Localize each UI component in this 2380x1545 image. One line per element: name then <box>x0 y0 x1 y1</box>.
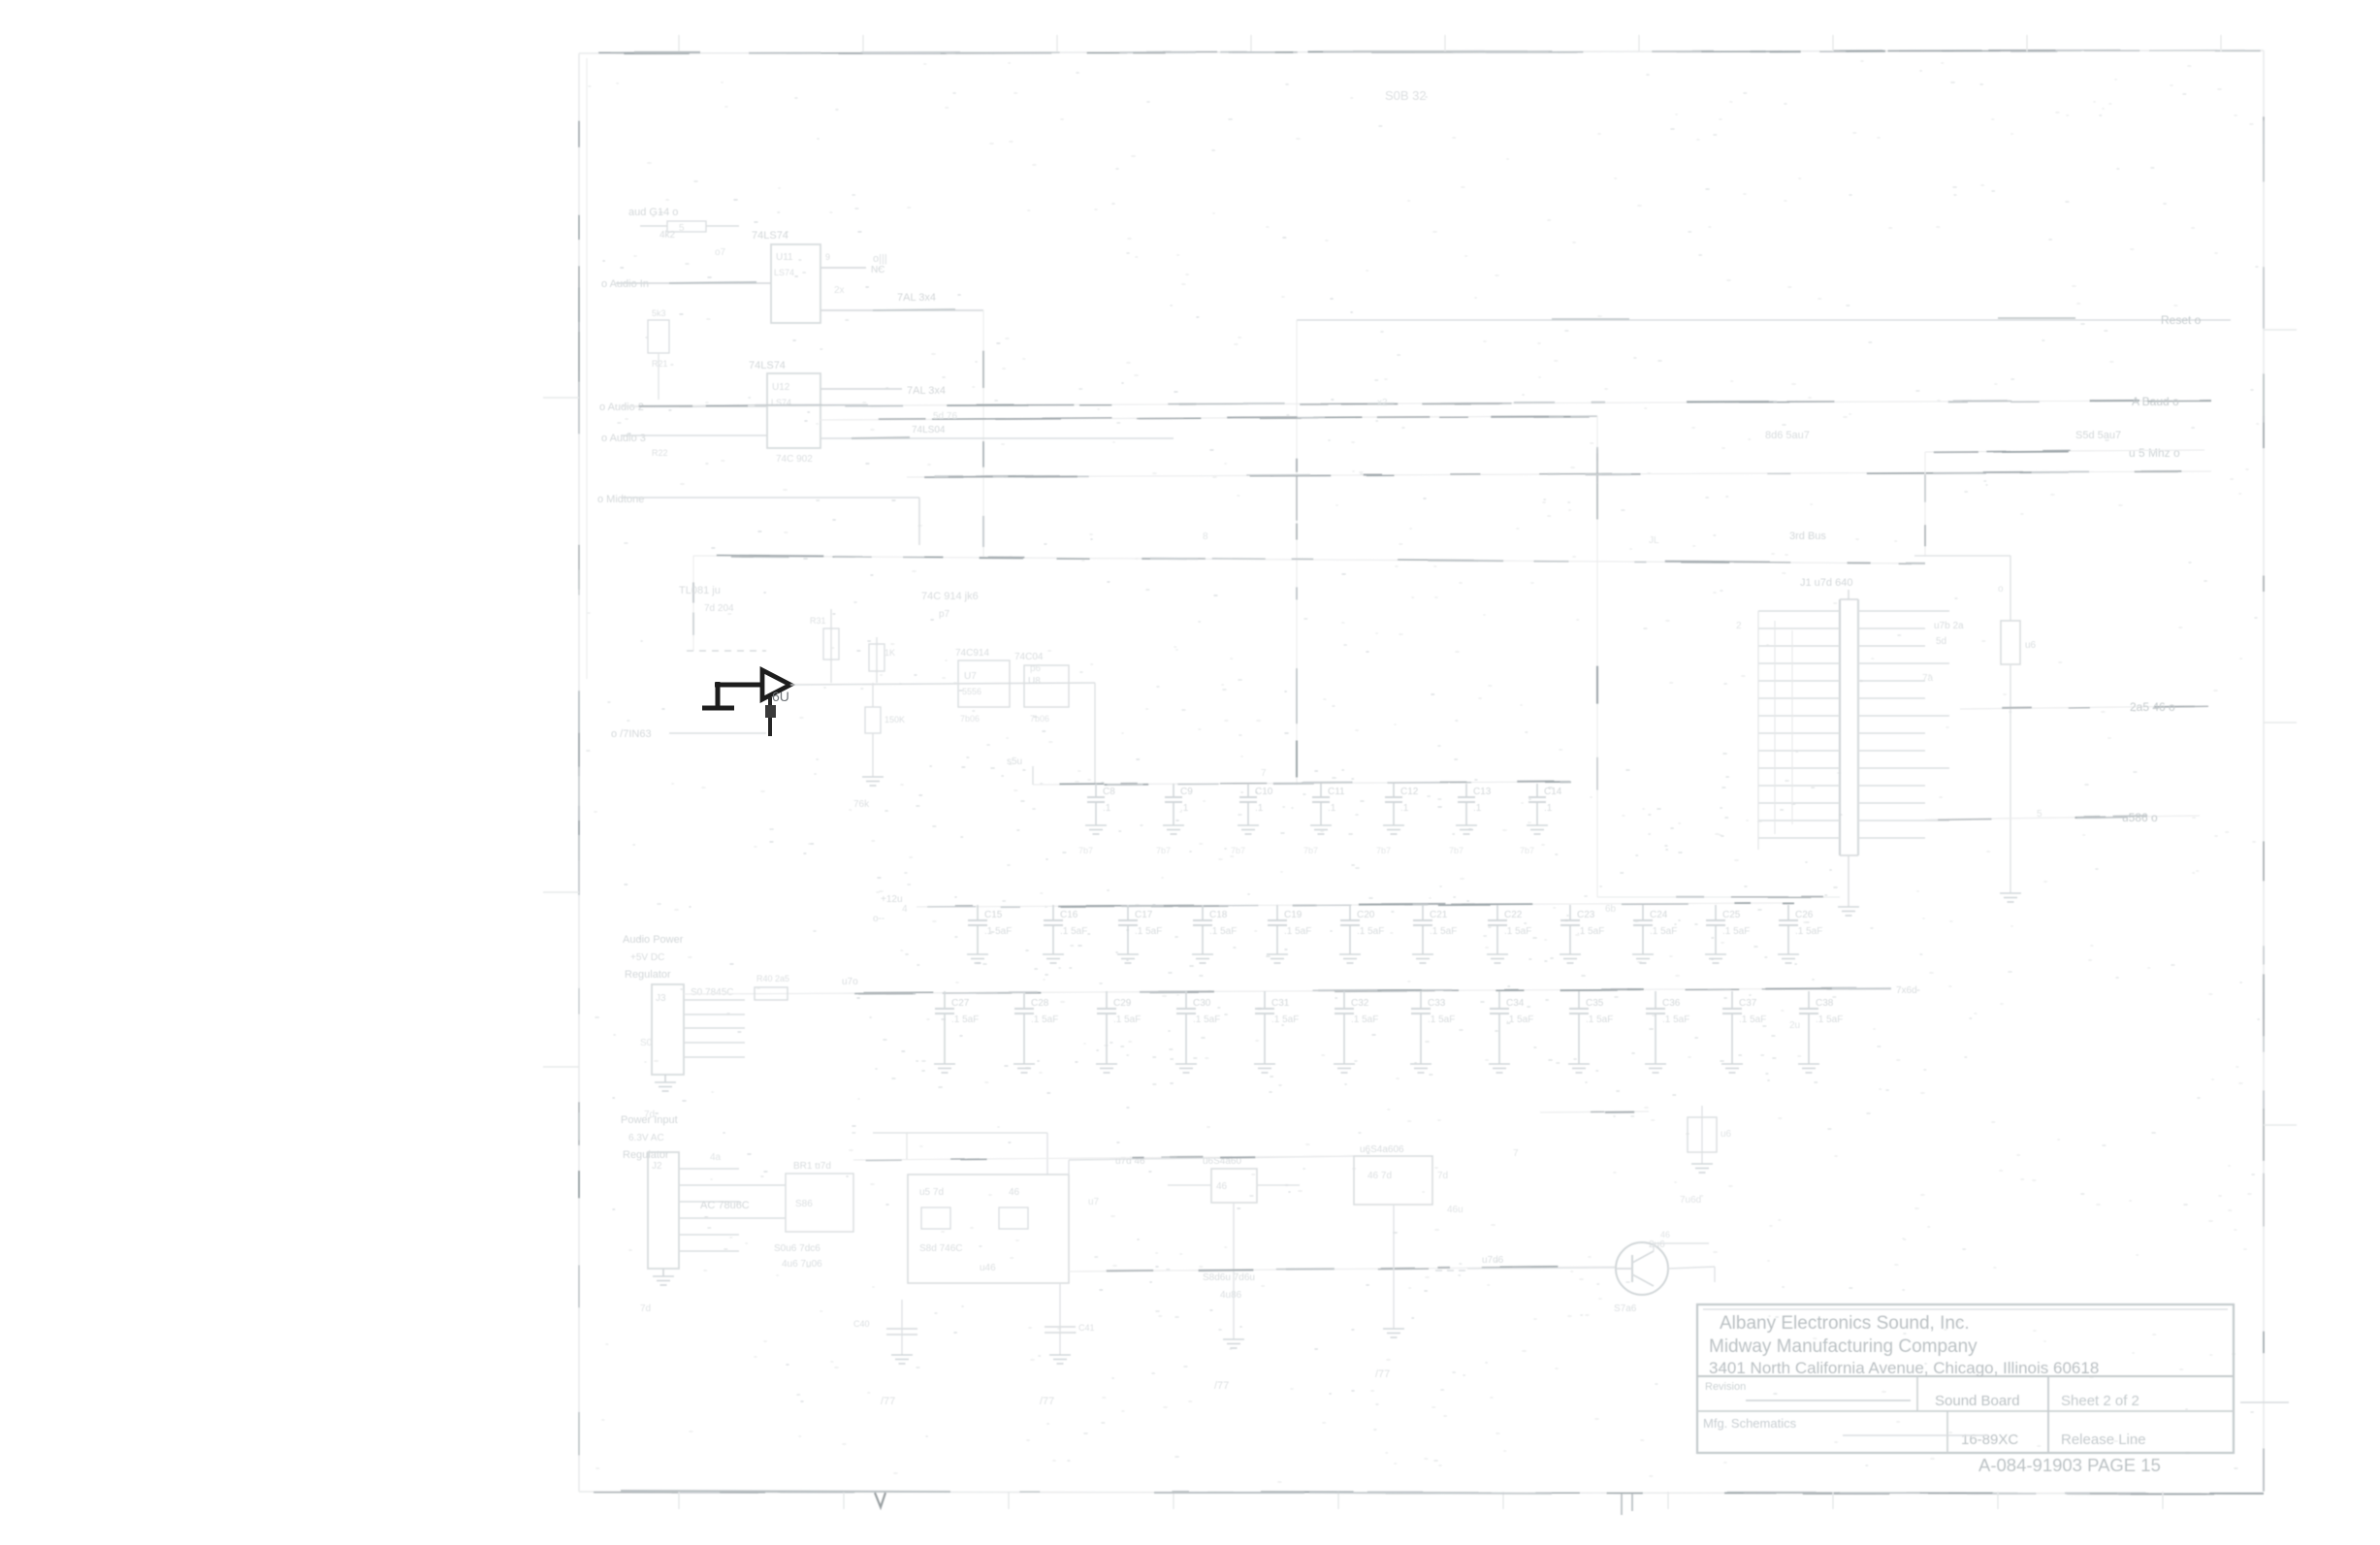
ground under R33 <box>862 777 884 786</box>
ground under C41 <box>1049 1355 1071 1364</box>
ground under J2 <box>653 1269 674 1285</box>
label: right edge upper nets <box>1765 430 2121 441</box>
svg-text:7b7: 7b7 <box>1449 846 1463 855</box>
IC U7 small box <box>955 648 1010 724</box>
wire: net B run with corner to connector <box>820 416 1840 897</box>
capacitor C36 <box>1646 991 1689 1064</box>
wire: U21 ground leg <box>1233 1203 1235 1339</box>
wire: net RESET long run to right edge <box>1297 313 2231 327</box>
svg-text:C10: C10 <box>1255 787 1273 797</box>
svg-text:5: 5 <box>2037 809 2042 820</box>
svg-text:Sound Board: Sound Board <box>1935 1393 2020 1409</box>
ground for C11 <box>1310 825 1332 834</box>
svg-text:4a: 4a <box>710 1152 722 1163</box>
pin 1 of J1 (left) <box>1758 610 1840 612</box>
svg-text:C11: C11 <box>1328 787 1345 797</box>
svg-text:C38: C38 <box>1816 998 1834 1009</box>
svg-text:3401 North California Avenue,: 3401 North California Avenue, Chicago, I… <box>1709 1359 2099 1377</box>
pin 12 of J1 (left) <box>1758 802 1840 804</box>
svg-text:.1 5aF: .1 5aF <box>1284 926 1311 937</box>
ground for C15 <box>967 954 988 963</box>
wire: net C long run <box>907 446 2211 477</box>
svg-text:1K: 1K <box>884 648 895 658</box>
pin 4 of J1 (right) <box>1858 662 1949 664</box>
wire: BR1 top feed <box>873 1133 1047 1175</box>
wire: U12 output long run <box>820 425 1174 438</box>
svg-text:o Audio 2: o Audio 2 <box>599 402 644 413</box>
svg-text:o--: o-- <box>873 914 884 924</box>
svg-text:C8: C8 <box>1103 787 1115 797</box>
title block frame <box>1697 1304 2234 1453</box>
ground for C19 <box>1267 954 1288 963</box>
svg-text:.1 5aF: .1 5aF <box>951 1014 979 1025</box>
svg-text:4u86: 4u86 <box>1220 1290 1242 1301</box>
wire: regulator output bus B2 <box>684 977 1917 996</box>
svg-text:46: 46 <box>1216 1181 1228 1192</box>
svg-text:C33: C33 <box>1428 998 1446 1009</box>
IC U12 74LS74 flip-flop <box>767 373 820 448</box>
pin 5 of J1 (right) <box>1858 680 1925 682</box>
ground for C10 <box>1238 825 1259 834</box>
svg-text:C9: C9 <box>1180 787 1193 797</box>
ground under U21 <box>1223 1339 1244 1348</box>
wire: net A long run <box>621 395 2211 408</box>
svg-text:C30: C30 <box>1193 998 1211 1009</box>
svg-text:74LS04: 74LS04 <box>912 425 946 435</box>
svg-text:2a5 46 o: 2a5 46 o <box>2130 700 2175 714</box>
svg-text:.1 5aF: .1 5aF <box>1795 926 1822 937</box>
svg-text:46 7d: 46 7d <box>1367 1171 1392 1181</box>
svg-text:AC 78u6C: AC 78u6C <box>700 1200 750 1211</box>
svg-text:4: 4 <box>902 904 908 915</box>
label under BR1 <box>774 1243 822 1270</box>
svg-text:6b: 6b <box>1605 904 1617 915</box>
label cluster: Power Input Regulator <box>621 1114 678 1161</box>
svg-text:7d: 7d <box>1437 1171 1448 1181</box>
pin 13 of J1 (right) <box>1858 820 1949 821</box>
svg-text:u46: u46 <box>980 1263 996 1273</box>
svg-text:J2: J2 <box>652 1161 662 1172</box>
svg-text:.1: .1 <box>1328 803 1336 814</box>
wire: U11 Q output stub <box>820 252 884 275</box>
svg-text:9: 9 <box>825 252 830 262</box>
svg-text:C26: C26 <box>1795 910 1814 920</box>
capacitor C41 with ground <box>1045 1283 1095 1355</box>
wire: +12V bypass bus B1 <box>873 894 1794 924</box>
svg-text:2: 2 <box>1736 621 1742 631</box>
svg-text:6.3V AC: 6.3V AC <box>628 1133 664 1143</box>
svg-text:C28: C28 <box>1031 998 1049 1009</box>
wire: chain to cap bus A <box>1094 683 1096 785</box>
ground for C33 <box>1410 1064 1431 1073</box>
svg-text:Power Input: Power Input <box>621 1114 678 1126</box>
svg-text:46u: 46u <box>1447 1205 1463 1215</box>
svg-text:x2: x2 <box>1377 398 1388 408</box>
svg-text:.1 5aF: .1 5aF <box>1428 1014 1455 1025</box>
pin 13 of J1 (left) <box>1758 820 1840 821</box>
pin 3 of J1 (left) <box>1758 645 1840 647</box>
wire: J1 bottom stub to ground <box>1848 855 1849 907</box>
ground for C25 <box>1705 954 1726 963</box>
svg-text:Audio Power: Audio Power <box>623 934 684 946</box>
wire: net D to right edge label <box>1925 450 2204 556</box>
svg-text:R31: R31 <box>810 616 826 626</box>
label cluster: TL081 above op-amp <box>679 585 734 614</box>
capacitor C22 <box>1488 905 1531 954</box>
svg-text:7b7: 7b7 <box>1303 846 1318 855</box>
svg-text:7b7: 7b7 <box>1520 846 1534 855</box>
svg-text:.1 5aF: .1 5aF <box>1722 926 1750 937</box>
node label cluster: clock inputs <box>628 207 678 241</box>
svg-text:C24: C24 <box>1650 910 1668 920</box>
svg-text:S0 7845C: S0 7845C <box>691 987 733 998</box>
regulator block U20 <box>908 1175 1069 1283</box>
capacitor C16 <box>1044 905 1087 954</box>
svg-text:8: 8 <box>1203 531 1208 542</box>
svg-text:LS74: LS74 <box>774 268 794 277</box>
svg-text:o /7IN63: o /7IN63 <box>611 728 652 740</box>
svg-text:7AL 3x4: 7AL 3x4 <box>897 292 936 304</box>
connector J1 body rails <box>1840 599 1858 855</box>
svg-text:NC: NC <box>871 265 884 275</box>
svg-text:A-084-91903 PAGE 15: A-084-91903 PAGE 15 <box>1978 1455 2161 1475</box>
svg-text:BR1 u7d: BR1 u7d <box>793 1161 831 1172</box>
pin 6 of J1 (right) <box>1858 697 1925 699</box>
svg-text:C27: C27 <box>951 998 970 1009</box>
wire: net into R45 <box>1914 555 2010 557</box>
ground for C9 <box>1163 825 1184 834</box>
svg-text:C21: C21 <box>1430 910 1448 920</box>
pin 1 of J1 (right) <box>1858 610 1949 612</box>
svg-text:U8: U8 <box>1028 676 1041 687</box>
pin 11 of J1 (right) <box>1858 785 1925 787</box>
wire: vertical net from RESET run <box>1296 320 1298 785</box>
svg-text:.1 5aF: .1 5aF <box>1031 1014 1058 1025</box>
pin 9 of J1 (right) <box>1858 750 1925 752</box>
ground for C28 <box>1013 1064 1035 1073</box>
pin 3 of J1 (right) <box>1858 645 1925 647</box>
svg-text:150K: 150K <box>884 715 905 724</box>
pin 7 of J1 (right) <box>1858 715 1949 717</box>
svg-text:C35: C35 <box>1586 998 1604 1009</box>
svg-text:C15: C15 <box>984 910 1003 920</box>
svg-text:u6S4a606: u6S4a606 <box>1360 1144 1404 1155</box>
ground under R45 net <box>2000 893 2021 902</box>
svg-text:7b06: 7b06 <box>960 714 980 724</box>
pin 7 of J1 (left) <box>1758 715 1840 717</box>
svg-text:u6: u6 <box>2025 640 2037 651</box>
svg-text:u7d6: u7d6 <box>1482 1255 1504 1266</box>
svg-text:8d6 5au7: 8d6 5au7 <box>1765 430 1810 441</box>
svg-text:2u6: 2u6 <box>1649 1239 1665 1250</box>
svg-text:S5d 5au7: S5d 5au7 <box>2075 430 2121 441</box>
svg-text:5d: 5d <box>1936 636 1946 647</box>
capacitor C8 <box>1087 784 1115 825</box>
svg-text:.1 5aF: .1 5aF <box>1193 1014 1220 1025</box>
capacitor C27 <box>935 991 979 1064</box>
svg-text:C23: C23 <box>1577 910 1595 920</box>
ground under C40 <box>891 1355 913 1364</box>
capacitor C38 <box>1799 991 1843 1064</box>
capacitor C14 <box>1528 784 1562 825</box>
transistor Q1 <box>1616 1239 1668 1295</box>
resistor R17 <box>640 221 739 232</box>
IC U8 small box <box>1014 652 1069 724</box>
capacitor C25 <box>1706 905 1750 954</box>
pin 8 of J1 (right) <box>1858 732 1925 734</box>
wire: data net with corner <box>597 494 919 545</box>
ground for C23 <box>1560 954 1581 963</box>
svg-text:Release Line: Release Line <box>2061 1432 2146 1448</box>
IC U11 74LS74 flip-flop <box>771 244 820 323</box>
svg-text:.1: .1 <box>1544 803 1553 814</box>
svg-text:.1 5aF: .1 5aF <box>1113 1014 1141 1025</box>
svg-text:o|||: o||| <box>873 253 887 265</box>
svg-text:.1 5aF: .1 5aF <box>1060 926 1087 937</box>
ground for C20 <box>1339 954 1361 963</box>
svg-text:C22: C22 <box>1504 910 1523 920</box>
svg-text:7: 7 <box>1261 768 1267 779</box>
svg-text:16-89XC: 16-89XC <box>1961 1432 2018 1448</box>
wire: input net to U11 pin 2 <box>601 278 771 290</box>
svg-text:74C914: 74C914 <box>955 648 989 659</box>
svg-text:7d 204: 7d 204 <box>704 603 734 614</box>
wire: U12 output to cluster <box>820 385 946 397</box>
svg-text:5556: 5556 <box>962 687 981 696</box>
svg-text:Reset o: Reset o <box>2161 313 2202 327</box>
label cluster: 74C914 mid <box>921 591 979 620</box>
svg-text:7b06: 7b06 <box>1030 714 1049 724</box>
svg-text:o: o <box>1998 584 2004 595</box>
svg-text:U11: U11 <box>776 252 793 263</box>
svg-text:C19: C19 <box>1284 910 1303 920</box>
wire: bottom right short run <box>1540 1111 1649 1112</box>
svg-text:.1 5aF: .1 5aF <box>1430 926 1457 937</box>
capacitor C23 <box>1560 905 1604 954</box>
pin 10 of J1 (right) <box>1858 767 1949 769</box>
svg-text:/77: /77 <box>1375 1368 1390 1380</box>
ground for C13 <box>1456 825 1477 834</box>
ground for C34 <box>1489 1064 1510 1073</box>
svg-text:C29: C29 <box>1113 998 1132 1009</box>
ground for C12 <box>1383 825 1404 834</box>
svg-text:S86: S86 <box>795 1199 813 1209</box>
capacitor C35 <box>1569 991 1613 1064</box>
title block underline marks <box>1746 1400 2289 1435</box>
svg-text:J1 u7d 640: J1 u7d 640 <box>1800 577 1852 589</box>
svg-text:.1 5aF: .1 5aF <box>1739 1014 1766 1025</box>
svg-text:o Audio In: o Audio In <box>601 278 649 290</box>
svg-text:6U: 6U <box>772 689 789 704</box>
svg-text:Albany Electronics Sound, Inc.: Albany Electronics Sound, Inc. <box>1720 1313 1970 1334</box>
svg-text:74LS74: 74LS74 <box>752 230 788 241</box>
svg-text:.1 5aF: .1 5aF <box>984 926 1012 937</box>
label: RESET net left <box>611 728 766 740</box>
ground for C31 <box>1254 1064 1275 1073</box>
resistor R31 <box>810 609 839 683</box>
wire: input net lower to U12 <box>601 433 767 444</box>
svg-text:76k: 76k <box>853 799 870 810</box>
ground under J3 <box>655 1075 676 1091</box>
svg-text:74LS74: 74LS74 <box>749 360 786 371</box>
wire: +5V bypass bus A <box>1007 756 1571 785</box>
svg-text:Regulator: Regulator <box>625 969 671 981</box>
svg-text:.1 5aF: .1 5aF <box>1650 926 1677 937</box>
svg-text:.1 5aF: .1 5aF <box>1816 1014 1843 1025</box>
svg-text:u5 7d: u5 7d <box>919 1187 944 1198</box>
svg-text:/77: /77 <box>1214 1380 1229 1392</box>
pin 12 of J1 (right) <box>1858 802 1925 804</box>
svg-text:u7o: u7o <box>842 977 858 987</box>
capacitor C20 <box>1340 905 1384 954</box>
svg-text:S8d6u 7d6u: S8d6u 7d6u <box>1203 1272 1255 1283</box>
ground for C21 <box>1412 954 1433 963</box>
resistor R32 <box>869 637 895 683</box>
svg-text:u586 o: u586 o <box>2122 811 2158 824</box>
svg-text:74C 902: 74C 902 <box>776 454 813 465</box>
svg-text:o7: o7 <box>715 247 726 258</box>
svg-text:.1: .1 <box>1400 803 1409 814</box>
svg-text:C41: C41 <box>1078 1323 1095 1333</box>
svg-text:7d: 7d <box>640 1304 651 1314</box>
svg-text:/77: /77 <box>881 1396 895 1407</box>
svg-text:.1: .1 <box>1103 803 1111 814</box>
svg-text:p7: p7 <box>939 609 950 620</box>
wire: op-amp output net right <box>790 683 1095 685</box>
svg-text:.1 5aF: .1 5aF <box>1351 1014 1378 1025</box>
svg-text:7x6d: 7x6d <box>1896 985 1917 996</box>
wire: ground to op-amp U6 input (dark) <box>715 683 764 688</box>
svg-text:Mfg. Schematics: Mfg. Schematics <box>1703 1416 1797 1431</box>
connector J3 power input <box>652 984 745 1075</box>
svg-text:7b7: 7b7 <box>1078 846 1093 855</box>
svg-text:5d 76: 5d 76 <box>933 411 957 422</box>
svg-text:.1: .1 <box>1255 803 1264 814</box>
pin 6 of J1 (left) <box>1758 697 1840 699</box>
svg-text:7b7: 7b7 <box>1231 846 1245 855</box>
svg-text:74C04: 74C04 <box>1014 652 1044 662</box>
svg-text:U7: U7 <box>964 671 977 682</box>
svg-text:S8d 746C: S8d 746C <box>919 1243 962 1254</box>
svg-text:U12: U12 <box>772 382 790 393</box>
svg-text:TL081 ju: TL081 ju <box>679 585 721 596</box>
svg-text:R40 2a5: R40 2a5 <box>756 974 789 983</box>
ground for C37 <box>1721 1064 1743 1073</box>
capacitor C44 near title block <box>1688 1106 1732 1164</box>
svg-text:C40: C40 <box>853 1319 870 1329</box>
pin 10 of J1 (left) <box>1758 767 1840 769</box>
svg-text:C32: C32 <box>1351 998 1369 1009</box>
ground under C44 <box>1691 1164 1713 1173</box>
svg-text:S0u6 7dc6: S0u6 7dc6 <box>774 1243 820 1254</box>
svg-text:o Audio 3: o Audio 3 <box>601 433 646 444</box>
capacitor C9 <box>1165 784 1193 825</box>
svg-text:7b7: 7b7 <box>1376 846 1391 855</box>
svg-text:p6: p6 <box>1030 663 1042 674</box>
svg-text:.1: .1 <box>1473 803 1482 814</box>
svg-text:C16: C16 <box>1060 910 1078 920</box>
svg-text:aud G14 o: aud G14 o <box>628 207 678 218</box>
svg-text:C31: C31 <box>1271 998 1290 1009</box>
label cluster: Audio Power Regulator <box>623 934 684 981</box>
wire: op-amp U6 output drop (dark) <box>765 697 776 736</box>
op-amp U6 buffer triangle <box>762 670 790 699</box>
svg-text:3rd Bus: 3rd Bus <box>1789 531 1826 542</box>
svg-text:C13: C13 <box>1473 787 1492 797</box>
pin 5 of J1 (left) <box>1758 680 1840 682</box>
pin 14 of J1 (right) <box>1858 837 1925 839</box>
svg-text:7: 7 <box>1513 1148 1519 1159</box>
svg-text:u7: u7 <box>1088 1197 1100 1207</box>
svg-text:46: 46 <box>1009 1187 1020 1198</box>
svg-text:C34: C34 <box>1506 998 1525 1009</box>
wire: U11 to long vertical net <box>820 309 983 310</box>
pin 14 of J1 (left) <box>1758 837 1840 839</box>
svg-text:C20: C20 <box>1357 910 1375 920</box>
pin 4 of J1 (left) <box>1758 662 1840 664</box>
svg-text:+12u: +12u <box>881 894 903 905</box>
svg-text:C12: C12 <box>1400 787 1419 797</box>
label above connector J1 <box>1800 577 1852 599</box>
svg-text:.1 5aF: .1 5aF <box>1209 926 1237 937</box>
pin 9 of J1 (left) <box>1758 750 1840 752</box>
svg-text:.1 5aF: .1 5aF <box>1506 1014 1533 1025</box>
regulator U21 LM340 <box>1168 1156 1300 1203</box>
ground for C32 <box>1334 1064 1355 1073</box>
svg-text:4u6 7u06: 4u6 7u06 <box>782 1259 822 1270</box>
svg-text:7a: 7a <box>1922 673 1934 684</box>
capacitor C30 <box>1176 991 1220 1064</box>
svg-text:7AL 3x4: 7AL 3x4 <box>907 385 946 397</box>
svg-text:2x: 2x <box>834 285 845 296</box>
svg-text:S0: S0 <box>640 1038 653 1048</box>
svg-text:C36: C36 <box>1662 998 1681 1009</box>
label cluster right of J1 <box>1934 621 1964 647</box>
ground under U22 <box>1383 1329 1404 1337</box>
ground for C8 <box>1085 825 1107 834</box>
ground (dark) at op-amp U6 input <box>702 682 734 708</box>
capacitor C15 <box>968 905 1012 954</box>
svg-text:7u6d: 7u6d <box>1680 1195 1701 1206</box>
svg-text:C14: C14 <box>1544 787 1562 797</box>
ground for C29 <box>1096 1064 1117 1073</box>
capacitor C40 with ground <box>853 1300 917 1355</box>
svg-text:5: 5 <box>679 223 685 234</box>
capacitor C37 <box>1722 991 1766 1064</box>
capacitor C34 <box>1490 991 1533 1064</box>
svg-text:J3: J3 <box>656 993 666 1004</box>
pin 2 of J1 (right) <box>1858 628 1925 629</box>
capacitor C33 <box>1411 991 1455 1064</box>
svg-text:C17: C17 <box>1135 910 1153 920</box>
ground for C16 <box>1043 954 1064 963</box>
pin 11 of J1 (left) <box>1758 785 1840 787</box>
capacitor C17 <box>1118 905 1162 954</box>
capacitor C31 <box>1255 991 1299 1064</box>
title block text <box>1703 1313 2161 1475</box>
svg-text:u6: u6 <box>1721 1129 1732 1140</box>
svg-text:+5V DC: +5V DC <box>630 952 664 963</box>
svg-text:A Baud o: A Baud o <box>2132 395 2179 408</box>
capacitor C29 <box>1097 991 1141 1064</box>
pin 2 of J1 (left) <box>1758 628 1840 629</box>
svg-text:R22: R22 <box>652 448 668 458</box>
wire: vertical net segment <box>982 310 984 557</box>
svg-text:.1 5aF: .1 5aF <box>1135 926 1162 937</box>
wire: long bottom audio run <box>853 1156 1616 1271</box>
pin 8 of J1 (left) <box>1758 732 1840 734</box>
svg-text:.1 5aF: .1 5aF <box>1577 926 1604 937</box>
